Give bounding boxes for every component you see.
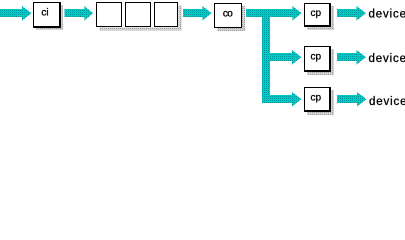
- box cp1 shadow: [307, 6, 334, 30]
- box ci shadow: [36, 5, 63, 30]
- wire: branch arrow to cp2: [262, 50, 302, 65]
- box ci: [33, 2, 61, 28]
- svg-text:cp: cp: [311, 8, 322, 19]
- buffer group shadow right band: [179, 6, 182, 31]
- buffer cell 2: [125, 2, 151, 27]
- box co shadow: [217, 6, 245, 31]
- wire: arrow ci to buffer: [65, 6, 94, 21]
- wire: input arrow into ci: [0, 6, 32, 21]
- wire: arrow cp1 to device: [337, 6, 366, 21]
- wire: branch arrow to cp3: [262, 92, 302, 107]
- svg-text:device: device: [369, 53, 405, 65]
- svg-text:ci: ci: [41, 8, 48, 19]
- wire: arrow cp3 to device: [337, 92, 367, 107]
- buffer cell 3: [154, 2, 178, 27]
- wire: arrow buffer to co: [183, 6, 212, 21]
- svg-text:cp: cp: [311, 93, 322, 104]
- wire: arrow co to cp1: [246, 6, 302, 21]
- wire: arrow cp2 to device: [337, 50, 366, 65]
- svg-text:device: device: [369, 9, 405, 21]
- wire: vertical distribution bar: [262, 9, 270, 103]
- box cp2: [304, 46, 331, 72]
- svg-text:device: device: [369, 96, 405, 108]
- buffer cell 1: [96, 2, 122, 27]
- svg-text:co: co: [223, 9, 233, 20]
- box cp1: [304, 3, 331, 27]
- buffer group shadow bottom band: [100, 28, 182, 31]
- box co: [214, 3, 242, 28]
- box cp3: [304, 87, 331, 112]
- box cp2 shadow: [307, 49, 334, 75]
- box cp3 shadow: [307, 90, 334, 115]
- svg-text:cp: cp: [311, 52, 322, 63]
